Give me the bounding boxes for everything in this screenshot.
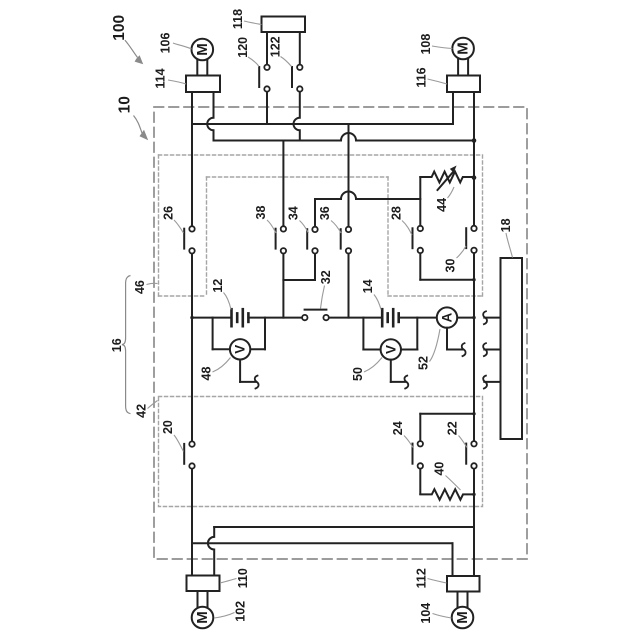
leader 28 [402,221,412,236]
svg-text:28: 28 [389,206,403,220]
svg-text:22: 22 [446,421,460,435]
leader 32 [321,286,325,309]
switch 34 [307,227,317,254]
voltmeter 50 output lead with break tilde [391,360,408,389]
leader 48 [213,358,231,373]
switch symbols [184,65,477,469]
voltmeter V 50 parallel taps [363,318,417,350]
leader 106 [173,43,192,49]
svg-text:104: 104 [419,603,433,624]
switch 32 [302,310,329,321]
wire: branch of switch 38 from bus B [282,141,284,227]
leader 50 [364,358,382,373]
shaft of motor 102 [198,592,208,607]
svg-text:M: M [454,611,471,624]
arrow of variable resistor 44 [438,166,457,191]
leader 110 [220,579,237,584]
svg-text:A: A [440,312,455,322]
switch 120 [259,65,269,92]
wire: bus C horizontal [214,526,474,528]
leader 18 [506,233,513,258]
motor M3 (106) circle [192,39,214,61]
junction dot main line / left rail [190,316,193,319]
leader 46 [147,283,158,284]
connection box 116 [447,76,480,93]
wire: switch 38 lower lead to main line [282,253,284,317]
ammeter A 52 circle [437,307,457,327]
svg-text:44: 44 [435,198,449,212]
switch 22 [466,441,476,469]
junction dot switch-24 branch / right rail [472,412,475,415]
svg-text:110: 110 [236,568,250,588]
leader 108 [432,46,452,49]
svg-text:34: 34 [287,206,301,220]
wire: box 110 right lead with hop over bus D, feeding bus C [208,527,214,576]
wire: switch 28 upper lead [419,177,421,226]
switch 122 [292,65,302,92]
svg-text:120: 120 [236,37,250,58]
wire: switch 24 lower lead [419,469,421,494]
wire: switch 34 lower lead [314,253,316,280]
wire: bus B horizontal with hop over node at x=348.5 [214,133,475,141]
leader 38 [267,220,276,233]
svg-text:12: 12 [211,279,225,293]
dashed inner group box (switches 38,34,36) [207,177,389,296]
svg-text:14: 14 [361,279,375,293]
voltmeter 48 output lead with break tilde [240,360,258,389]
wire: box 114 right lead with hop over bus A, feeding bus B [207,92,213,141]
leader 30 [457,246,467,258]
switch 24 [413,441,423,469]
svg-text:V: V [383,345,398,354]
svg-text:106: 106 [159,33,173,54]
svg-text:10: 10 [116,96,133,113]
leader 122 [281,57,292,67]
wire: switch 28 lower lead [419,253,421,280]
leader 24 [404,436,413,448]
svg-text:100: 100 [111,15,128,41]
wire: branch to switch 24 from right rail [420,414,474,441]
svg-text:M: M [455,42,472,55]
shaft of motor 104 [458,592,468,607]
svg-text:26: 26 [161,206,175,220]
control box 18 stub 3 with break tilde [483,376,500,389]
bracket for group 16 [122,276,131,414]
leader 118 [244,21,262,25]
leader 102 [215,613,235,619]
svg-text:18: 18 [499,218,513,232]
leader 116 [428,79,448,84]
switch 30 [466,226,476,253]
junction dot main line / right rail [472,316,475,319]
svg-text:32: 32 [319,270,333,284]
control box 18 stub 2 with break tilde [483,343,500,356]
arrow for label 100 [125,40,143,64]
wire: bus A riser to box 116 [452,92,454,124]
leader 42 [148,401,158,409]
svg-text:20: 20 [161,420,175,434]
wire: link line y=199 with hop over switch-36 branch [315,192,420,199]
wire: link switch 28 bottom to right rail [420,279,474,281]
wire: main line ammeter to right rail [457,317,474,319]
svg-text:50: 50 [351,367,365,381]
battery 12 cell plates [232,309,249,326]
leader 20 [174,435,184,452]
svg-text:V: V [233,345,248,354]
wire: right rail from box 116 to switch 30 [473,92,475,226]
leader 44 [448,187,455,198]
junction dot resistor 44 / right rail [472,175,477,180]
resistor 40 zigzag line [420,489,474,500]
svg-text:52: 52 [417,356,431,370]
wire: main middle line left of battery 12 [192,317,232,319]
shaft of motor 108 [458,60,468,76]
junction dot resistor-40 line / right rail [472,493,475,496]
switch 28 [413,226,423,253]
svg-text:46: 46 [133,280,147,294]
wire: main line battery 12 to switch 32 [248,317,302,319]
wire: right rail switch 22 to box 112 [473,469,475,576]
leader 40 [446,476,461,491]
control unit box 18 [501,258,523,439]
svg-text:116: 116 [414,67,428,87]
wire: switch 120 upper lead from box 118 [266,32,268,65]
svg-text:42: 42 [135,404,149,418]
svg-text:30: 30 [444,259,458,273]
wire: switch 120 lower lead to bus A [266,92,268,124]
wire: right rail switch 30 to switch 22 [473,253,475,441]
svg-text:16: 16 [110,338,124,352]
dashed group box 42 [159,397,483,507]
wire: switch 34 upper lead [314,199,316,227]
dashed enclosure 10 [154,107,527,559]
leader 14 [374,295,381,310]
leader 22 [459,436,468,448]
motor M1 (102) circle [192,607,214,629]
wire: main line battery 14 to ammeter [399,317,437,319]
leader 34 [300,221,309,234]
connection box 114 [186,76,220,93]
connection box 110 [187,576,220,592]
svg-text:M: M [194,43,211,56]
resistor 44 zigzag [420,172,474,183]
leader 112 [428,579,447,584]
switch 26 [184,226,195,253]
wire: left rail switch 26 to switch 20 [191,253,193,441]
svg-text:38: 38 [254,206,268,220]
voltmeter V 48 circle [230,339,250,359]
leader 12 [224,293,232,310]
wire: left rail from box 114 to switch 26 [191,92,193,226]
switch 36 [341,227,351,254]
wire: bus A horizontal [192,123,453,125]
svg-text:108: 108 [419,34,433,55]
leader 120 [248,57,259,67]
svg-text:40: 40 [433,462,447,476]
svg-text:122: 122 [268,36,282,57]
wire: left rail switch 20 to box 110 [191,469,193,576]
svg-text:102: 102 [234,601,248,622]
svg-text:M: M [194,611,211,624]
svg-text:114: 114 [154,68,168,88]
wire: switch 122 upper lead from box 118 [299,32,301,65]
leader 104 [433,614,452,619]
connection box 112 [447,576,480,592]
arrow for label 10 [134,116,149,141]
svg-text:118: 118 [231,9,245,29]
leader lines [147,21,513,618]
switch 38 [276,226,286,253]
wire: bus D horizontal [192,542,453,544]
leader 36 [331,221,341,234]
wire: bus D drop to box 112 [452,543,454,576]
junction dot switch-28 link / right rail [472,278,475,281]
wire: switch 36 lower lead to main line [348,253,350,317]
dashed group box 46 [159,155,483,296]
charger box 118 [262,17,306,33]
svg-text:36: 36 [318,206,332,220]
leader 52 [430,329,441,362]
junction dot bus B / right rail [472,138,477,143]
wire: switch 122 lower lead hopping bus A to bus B [294,92,300,141]
wire: main line switch 32 to battery 14 [329,317,383,319]
svg-text:112: 112 [414,568,428,588]
wire: joining link switches 38/34 [283,279,315,281]
voltmeter V 48 parallel taps [213,318,265,350]
svg-text:24: 24 [391,421,405,435]
motor M2 (104) circle [452,607,474,629]
voltmeter V 50 circle [381,339,401,359]
ammeter 52 output lead with break tilde [447,328,466,356]
wire: branch of switch 36 from bus A [348,124,350,227]
motor M4 (108) circle [452,38,474,60]
leader 26 [174,220,184,233]
switch 20 [184,441,195,468]
control box 18 stub 1 with break tilde [483,311,500,324]
battery 14 cell plates [382,309,399,326]
svg-text:48: 48 [200,367,214,381]
shaft of motor 106 [197,61,207,76]
leader 114 [168,80,186,84]
